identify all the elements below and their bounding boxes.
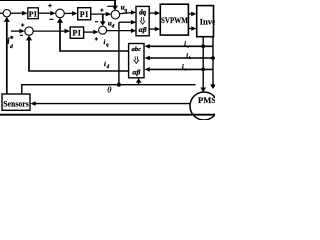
wire PI3 to ud junction: [84, 31, 95, 33]
svg-text:i: i: [104, 39, 106, 46]
bottom rule: [0, 114, 215, 116]
wire phase A down to motor: [202, 37, 204, 88]
svg-text:PI: PI: [80, 10, 89, 19]
wire theta branch up to abc block: [138, 82, 140, 85]
svg-text:PI: PI: [29, 9, 38, 18]
svg-text:dq: dq: [139, 9, 147, 17]
node dot theta junction: [117, 83, 121, 87]
arrowhead ib into abc block: [145, 56, 150, 61]
svg-text:PMSM: PMSM: [198, 95, 215, 105]
wire omega ref input: [0, 12, 3, 14]
wire SVPWM to inverter lower: [188, 28, 192, 30]
node dot phase A current tap ia: [201, 44, 205, 48]
label plus at q junction: [48, 4, 52, 8]
arrowhead down into uq junction: [112, 6, 118, 11]
arrowhead into PI2: [72, 11, 78, 16]
op-amp PI2 q-axis current controller: [78, 8, 91, 20]
wire to PI2: [64, 12, 73, 14]
node speed summing junction: [3, 10, 10, 17]
label double arrow in dq block: [140, 17, 145, 24]
wire to PI1: [11, 12, 24, 14]
arrowhead into PI1: [22, 11, 28, 16]
svg-text:SVPWM: SVPWM: [161, 15, 188, 25]
arrowhead into d junction: [19, 29, 24, 34]
arrowhead into q junction: [50, 11, 55, 16]
arrowhead down into ud junction: [100, 21, 106, 26]
arrowhead theta into abc block bottom: [136, 78, 142, 83]
arrowhead into sensors: [30, 101, 35, 106]
block inverter: [197, 6, 214, 37]
wire branch down to ud junction: [102, 14, 104, 21]
block sensors: [2, 94, 30, 110]
wire ud output to dq block: [107, 30, 133, 32]
wire id feedback riser: [28, 40, 30, 72]
wire decoupling shaft from top into uq junction: [114, 0, 116, 6]
svg-text:abc: abc: [132, 46, 141, 53]
label plus at uq junction: [100, 9, 103, 12]
arrowhead iq into q junction: [57, 18, 63, 23]
label plus at ud junction left: [95, 37, 98, 40]
arrowhead into dq block input 2: [131, 20, 136, 25]
wire PI1 to q-current junction: [38, 12, 51, 14]
svg-text:αβ: αβ: [132, 67, 140, 76]
svg-text:d: d: [10, 44, 13, 50]
wire id-ref input: [11, 30, 21, 32]
arrowhead ic into abc block: [145, 67, 150, 72]
arrowhead ia into abc block: [145, 44, 150, 49]
svg-text:Sensors: Sensors: [3, 100, 29, 109]
wire ia feedback: [149, 45, 213, 47]
label double arrow in abc block: [134, 56, 139, 63]
wire top edge cropped line: [0, 0, 116, 2]
wire iq feedback horizontal: [59, 50, 128, 52]
arrowhead into dq block input 3: [131, 28, 136, 33]
wire dq to SVPWM lower: [149, 28, 156, 30]
node dot phase A current tap ic: [201, 68, 205, 72]
node d-current summing junction: [25, 27, 33, 35]
arrowhead omega into speed junction: [4, 17, 10, 22]
motor PMSM circle: [190, 92, 218, 120]
block SVPWM: [160, 4, 188, 35]
svg-text:c: c: [185, 67, 187, 72]
label plus at d junction: [21, 23, 24, 26]
label minus at ud junction: [95, 21, 98, 23]
node dot phase B current tap ib: [211, 56, 215, 60]
node uq summing junction: [111, 10, 120, 19]
node q-current summing junction: [56, 9, 65, 18]
arrowhead into ud junction: [93, 30, 98, 35]
block dq to alphabeta transform: [136, 6, 149, 35]
svg-text:i: i: [104, 61, 106, 68]
op-amp PI3 d-axis current controller: [70, 27, 83, 38]
arrowhead phase B into motor: [210, 84, 216, 89]
arrowhead id into d junction: [26, 35, 32, 40]
node ud summing junction: [99, 26, 107, 34]
wire id feedback horizontal: [28, 70, 128, 72]
wire to PI3: [33, 30, 65, 32]
wire speed line from motor to sensors: [35, 103, 192, 105]
arrowhead phase A into motor: [200, 88, 206, 93]
label minus at q junction: [49, 18, 53, 20]
svg-text:θ: θ: [107, 85, 111, 95]
wire iq feedback riser: [59, 22, 61, 51]
wire PI2 to uq junction: [91, 13, 107, 15]
wire SVPWM to inverter upper: [188, 13, 192, 15]
label minus at d junction: [20, 34, 23, 36]
arrowhead into PI3: [65, 29, 71, 34]
svg-text:PI: PI: [72, 29, 81, 38]
wire theta rail: [22, 85, 196, 94]
wire uq output to dq block: [120, 13, 133, 14]
wire theta riser to dq: [118, 22, 120, 84]
block abc to alphabeta transform: [129, 44, 144, 78]
arrowhead into uq junction: [106, 12, 112, 17]
wire minus tick near uq: [107, 5, 113, 7]
svg-text:αβ: αβ: [139, 25, 147, 34]
wire theta into dq block: [119, 21, 132, 23]
svg-text:*: *: [10, 35, 14, 43]
op-amp PI1 speed controller: [28, 8, 39, 19]
wire ib feedback: [149, 57, 213, 59]
arrowhead into dq block input 1: [131, 10, 136, 15]
wire phase B down to motor: [212, 37, 214, 85]
svg-text:Inverter: Inverter: [200, 16, 215, 26]
wire ic feedback: [149, 68, 213, 70]
wire dq to SVPWM upper: [149, 12, 156, 14]
wire omega feedback riser: [6, 21, 8, 94]
